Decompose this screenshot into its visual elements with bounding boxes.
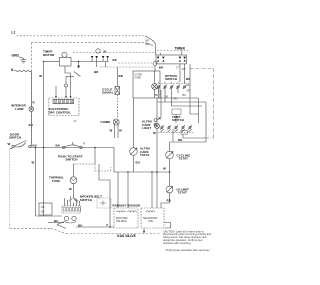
wire console dashed box left edge	[30, 43, 32, 146]
wire neutral to lamp	[30, 71, 32, 107]
timer motor TM label	[43, 50, 55, 57]
svg-text:HOLDING: HOLDING	[116, 221, 127, 223]
svg-text:SWITCH: SWITCH	[80, 198, 92, 202]
gas valve coil box 2	[141, 208, 164, 228]
coil L3 symbol	[146, 211, 155, 212]
temp switch label	[172, 115, 184, 122]
wire timer far wire to option bank	[189, 64, 191, 114]
wire ignitor L-route	[164, 223, 171, 229]
svg-text:operation after servicing.: operation after servicing.	[163, 242, 192, 245]
svg-text:W: W	[110, 129, 113, 133]
wire contact T2 drop	[105, 62, 107, 68]
timer contact drop at node B	[78, 62, 80, 67]
svg-text:RADIANT SENSOR: RADIANT SENSOR	[113, 204, 141, 208]
connector box on temp bank	[181, 131, 188, 135]
wire option drop 1	[159, 88, 199, 98]
svg-text:CHIME: CHIME	[101, 120, 111, 124]
relay box K1	[133, 71, 160, 98]
wire label BU	[136, 161, 140, 165]
timer switch contacts T2	[102, 56, 109, 59]
wire chime bottom leads	[114, 125, 118, 138]
wire relay box left drop	[133, 98, 135, 148]
svg-text:DRY CONTROL: DRY CONTROL	[49, 111, 71, 115]
wire dashed rail above timer	[157, 50, 190, 52]
wire right vertical x206	[199, 102, 206, 138]
wire label W	[163, 167, 166, 171]
cycling thermostat symbol	[166, 151, 174, 159]
svg-text:GAS VALVE: GAS VALVE	[117, 234, 136, 238]
svg-text:GND: GND	[12, 54, 20, 58]
broken belt switch label	[80, 195, 102, 202]
node A junction dot	[43, 61, 45, 63]
coil L1 symbol	[117, 211, 126, 212]
svg-text:W: W	[39, 74, 42, 78]
hi-limit thermostat symbol	[166, 186, 173, 193]
cycling tstat label	[177, 153, 191, 160]
wire L1 supply line (dotted)	[17, 35, 146, 37]
wire option bank dashed rail	[156, 83, 190, 85]
hi-limit tstat label	[177, 187, 189, 194]
svg-text:TSTAT: TSTAT	[178, 191, 188, 195]
timer block box	[156, 55, 187, 64]
wire motor lead right y227	[76, 226, 114, 228]
wire dashed row y63	[118, 62, 153, 64]
EDC pins 1-5	[54, 100, 73, 103]
wire timer to relay box	[154, 65, 156, 71]
wire connector lead	[157, 90, 161, 120]
timer cam circle M	[96, 49, 100, 53]
door switch blades	[14, 141, 26, 148]
wire thermal fuse top lead	[73, 164, 75, 177]
svg-text:RD: RD	[174, 99, 178, 101]
wire motor lead y222.5	[48, 222, 64, 224]
motor switch strip box	[62, 206, 81, 213]
coil L2 symbol	[128, 211, 137, 212]
wire label BU	[33, 143, 37, 147]
cycle signal buzzer symbol	[115, 87, 120, 95]
svg-text:TSTAT: TSTAT	[140, 153, 150, 157]
wire TM bottom to EDC pin 4	[65, 66, 71, 96]
svg-text:OR: OR	[187, 91, 191, 93]
electronic dry control EDC box	[49, 98, 79, 116]
wire label RD	[167, 199, 171, 203]
switch blade S1	[74, 72, 81, 77]
svg-text:SWITCH: SWITCH	[66, 158, 78, 162]
svg-text:1M: 1M	[41, 207, 44, 209]
wire label W	[153, 131, 156, 135]
wire door switch left drop	[10, 148, 13, 149]
interior lamp label	[11, 104, 27, 111]
wire run y172	[114, 171, 170, 173]
chime label	[101, 120, 111, 124]
wire dashed cam rail	[73, 52, 156, 54]
wire main run elbow down x114	[113, 148, 115, 173]
wire corner into timer box	[145, 36, 156, 55]
wire label BK	[78, 223, 83, 227]
svg-text:W: W	[32, 161, 35, 165]
connector box mid right	[172, 109, 181, 115]
wire label BR	[159, 66, 186, 72]
wire vertical bus from node A down	[43, 62, 45, 217]
wire label BK	[186, 77, 191, 93]
wire label BR	[94, 70, 99, 74]
wire belt switch into strip	[73, 203, 75, 207]
cycle signal label	[102, 87, 114, 94]
svg-text:SWITCH: SWITCH	[9, 136, 21, 140]
wire label W	[8, 142, 11, 146]
wire label BU	[29, 123, 33, 127]
broken belt switch symbol	[67, 198, 80, 202]
node junction y172	[169, 171, 171, 173]
svg-text:BU: BU	[54, 219, 58, 223]
node B junction dot	[78, 61, 80, 63]
node N neutral label	[11, 68, 14, 72]
wire label BK	[113, 58, 118, 62]
gas valve label	[117, 234, 136, 238]
timer block label	[175, 47, 186, 51]
wire dashed row y67	[100, 66, 154, 68]
motor windings M1	[64, 216, 68, 220]
wire bottom diagonal step	[51, 228, 66, 233]
wire connector top lead	[65, 77, 67, 85]
coil labels	[143, 217, 158, 223]
wire connector to EDC pin 3	[65, 87, 67, 96]
svg-text:BU: BU	[136, 161, 140, 165]
wire contact row base	[90, 61, 109, 63]
caution note text	[163, 230, 212, 252]
svg-text:TSTAT: TSTAT	[179, 157, 189, 161]
ultra care thermostat symbol	[130, 148, 138, 156]
svg-text:SIGNAL: SIGNAL	[102, 91, 114, 95]
svg-text:SWITCH: SWITCH	[165, 77, 177, 81]
node junction light wire	[156, 171, 158, 173]
wire tstat bottom lead	[133, 155, 135, 172]
wire gas valve ground drop	[143, 228, 145, 234]
svg-text:BU: BU	[29, 123, 33, 127]
temp switch bank terminals	[160, 125, 192, 132]
motor switch pins	[63, 208, 80, 211]
thermal fuse symbol	[70, 177, 77, 184]
timer switch contacts T1 on main line	[91, 56, 98, 59]
wire right dash-dot cabinet border	[190, 69, 214, 139]
connector circle 5	[65, 84, 68, 87]
wire label Y	[83, 142, 85, 146]
label M	[104, 49, 107, 53]
wire label W W	[110, 129, 123, 133]
wire blade lead	[66, 76, 74, 78]
svg-text:TIMER: TIMER	[175, 47, 186, 51]
wire gas valve feed x128	[127, 172, 129, 208]
svg-text:SWITCH: SWITCH	[172, 118, 184, 122]
wire gas valve feed x152	[151, 172, 153, 208]
wire timer right contact drops	[180, 64, 185, 84]
svg-text:2M: 2M	[41, 212, 44, 214]
svg-text:V: V	[106, 223, 108, 227]
wire TM left lead to node A	[44, 61, 60, 63]
svg-text:RD: RD	[182, 69, 186, 71]
svg-text:SECONDARY: SECONDARY	[143, 217, 158, 220]
svg-text:W: W	[163, 167, 166, 171]
svg-text:"Verify proper operation after: "Verify proper operation after servicing…	[165, 249, 211, 252]
ultra care light symbol	[155, 124, 160, 129]
wire temp bank drop a	[172, 129, 174, 142]
wire light bottom lead	[156, 129, 158, 209]
wire color labels under option bank	[155, 95, 186, 101]
wire label W	[69, 187, 72, 191]
wire rd feed line	[170, 138, 207, 142]
motor winding diagonal lead	[57, 222, 66, 229]
wire option drop 3	[172, 88, 203, 106]
svg-text:COIL: COIL	[148, 221, 154, 223]
wire cycle signal top lead	[117, 67, 119, 87]
svg-text:BK: BK	[155, 95, 159, 97]
wire bottom cabinet dashed run right	[66, 233, 161, 235]
wire thermal fuse bottom lead	[73, 184, 75, 198]
timer block contacts right	[179, 57, 186, 62]
timer block contacts left	[157, 57, 165, 62]
svg-text:W: W	[69, 187, 72, 191]
thermal fuse label	[49, 176, 64, 183]
coil labels	[116, 218, 128, 223]
svg-text:LAMP: LAMP	[15, 107, 24, 111]
wire option drop 2	[157, 88, 206, 102]
push to start switch label	[58, 154, 83, 161]
wire motor run y216	[36, 215, 63, 217]
svg-text:L1: L1	[12, 31, 16, 35]
door switch terminals	[12, 145, 14, 147]
drive motor block	[39, 203, 52, 215]
wire label W	[39, 74, 42, 78]
radiant sensor label	[113, 204, 141, 208]
wire label W	[32, 161, 35, 165]
relay coil symbol	[152, 84, 158, 90]
connector circle below timer	[153, 62, 157, 66]
node junction dots on main run	[35, 147, 37, 149]
wire neutral squiggle lead	[14, 70, 31, 72]
wire label R	[33, 101, 36, 105]
wire label BK	[56, 143, 61, 147]
wire cycle signal to chime (dashed)	[117, 95, 119, 119]
wire label BR	[119, 74, 124, 78]
wire temp bank dashed rail	[158, 132, 194, 134]
svg-text:W: W	[119, 129, 122, 133]
wire right route to temp switch	[190, 98, 199, 123]
svg-text:W: W	[8, 142, 11, 146]
node junction x110	[109, 226, 111, 228]
ultra care light label	[142, 120, 153, 130]
svg-text:W: W	[153, 131, 156, 135]
temp switch connector circles	[154, 119, 157, 122]
wire temp bank drop b	[183, 134, 199, 138]
svg-text:ULTRA: ULTRA	[135, 74, 143, 77]
wire label BU	[54, 219, 58, 223]
chime symbol	[113, 119, 119, 125]
node GND label	[12, 54, 20, 58]
EDC corner mark	[74, 120, 77, 123]
wire second left drop	[35, 148, 37, 217]
svg-text:Y: Y	[83, 142, 85, 146]
option switch label	[165, 74, 177, 81]
wire EDC pin 1 lead	[55, 86, 57, 96]
svg-text:LIGHT: LIGHT	[142, 126, 151, 130]
wire L1 feed down into timer	[181, 51, 183, 55]
push to start switch symbol	[62, 146, 64, 148]
wire thermal fuse feed drop	[94, 148, 96, 165]
svg-text:BOOSTER: BOOSTER	[116, 218, 128, 220]
wire TM right lead	[71, 61, 90, 63]
svg-text:MOTOR: MOTOR	[43, 53, 55, 57]
svg-text:AJ: AJ	[74, 120, 77, 123]
svg-text:1K: 1K	[187, 85, 190, 87]
wire label R	[159, 117, 162, 121]
wire cycling tstat bottom	[169, 159, 171, 186]
wire dashed jog to elbow	[95, 164, 111, 171]
wire thermal fuse feed horiz (dashed)	[74, 163, 96, 165]
svg-text:BU: BU	[183, 95, 187, 97]
ultra care tstat label	[140, 147, 151, 157]
interior lamp symbol	[29, 107, 34, 112]
node L1 label	[12, 31, 16, 35]
wire contact T1 drop	[96, 62, 98, 68]
wire lamp to door switch	[30, 111, 32, 146]
wire console dashed box top edge	[31, 42, 145, 44]
EDC label	[49, 107, 71, 114]
wire motor strip top stubs	[65, 196, 80, 206]
door switch label	[9, 132, 21, 139]
wire gas valve feed x118	[117, 172, 119, 208]
wire label V	[106, 223, 108, 227]
timer motor TM symbol	[62, 52, 67, 57]
wire bottom cabinet dashed run left	[10, 227, 51, 229]
wire relay coil leads	[154, 71, 156, 98]
svg-text:CARE: CARE	[135, 77, 142, 80]
svg-text:RD: RD	[178, 138, 182, 142]
start switch dashed enclosure	[97, 198, 111, 208]
svg-text:RD: RD	[167, 199, 171, 203]
wire main run y147.5	[31, 147, 114, 149]
svg-text:BU: BU	[33, 143, 37, 147]
ground symbol	[19, 57, 27, 63]
wire L1+console corner labels	[146, 41, 150, 46]
option terminal number ticks	[159, 82, 185, 84]
wire staircase from fuse row	[99, 164, 110, 227]
wire relay to light	[156, 98, 158, 124]
wire option drop 4	[177, 88, 179, 93]
svg-text:BR: BR	[146, 41, 150, 43]
wire label RD	[178, 138, 182, 142]
svg-text:FUSE: FUSE	[52, 179, 60, 183]
wire timer stub up to rail	[160, 53, 162, 55]
option switch bank terminals	[157, 85, 187, 89]
wire hi-limit bottom lead	[161, 193, 170, 208]
wire into cycling tstat	[169, 142, 171, 151]
gas valve coil box 1	[114, 208, 138, 228]
svg-text:BR: BR	[159, 66, 164, 70]
